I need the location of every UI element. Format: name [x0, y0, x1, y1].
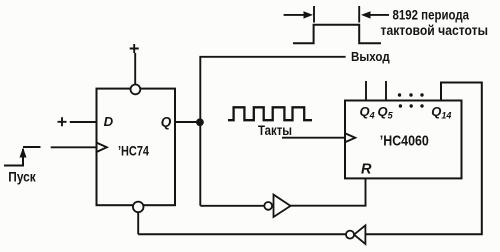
wire: right feedback vertical — [481, 82, 483, 235]
wire: node Q vertical — [199, 57, 201, 206]
measurement pulse waveform — [293, 25, 381, 44]
clock waveform — [228, 107, 312, 120]
wire: Q14 pin up and right — [441, 83, 482, 101]
svg-text:Q5: Q5 — [378, 104, 394, 121]
inverter A triangle — [274, 195, 291, 217]
U1 preset bubble (top) — [131, 85, 141, 95]
+ symbol (D input) — [58, 117, 67, 126]
svg-text:D: D — [104, 114, 114, 129]
wire: inverter A output to R pin — [291, 178, 366, 205]
svg-text:Пуск: Пуск — [8, 169, 36, 184]
svg-text:’HC74: ’HC74 — [118, 144, 149, 159]
svg-text:Выход: Выход — [351, 49, 390, 64]
svg-text:тактовой частоты: тактовой частоты — [381, 22, 489, 38]
wire: node Q to inverter A — [200, 205, 264, 207]
right arrow — [361, 11, 389, 18]
counter U2 'HC4060 body — [345, 101, 462, 179]
junction dot (node Q) — [196, 118, 204, 126]
inverter A input bubble — [264, 202, 272, 210]
wire: clear bubble to bottom line — [137, 212, 139, 234]
svg-text:Такты: Такты — [258, 123, 292, 138]
wire: Q output to node — [175, 121, 200, 123]
flip-flop U1 'HC74 body — [97, 89, 176, 206]
inverter B triangle (points left) — [354, 225, 365, 244]
U2 clock input chevron — [345, 133, 355, 142]
svg-text:Q: Q — [161, 115, 172, 130]
start edge arrowhead — [20, 148, 27, 158]
ellipsis dots (labels row) — [399, 104, 424, 107]
ellipsis dots (pins row) — [398, 93, 424, 96]
svg-text:Q4: Q4 — [360, 104, 375, 121]
wire: start to U1 clock — [51, 146, 97, 148]
inverter B output bubble — [346, 231, 354, 239]
svg-text:’HC4060: ’HC4060 — [380, 133, 429, 150]
wire: clock line into U2 — [282, 137, 345, 139]
left tick — [313, 6, 315, 23]
wire: bottom feedback left segment — [138, 233, 346, 235]
svg-text:Q14: Q14 — [431, 104, 451, 121]
+V symbol (top) — [130, 44, 139, 53]
wire: + to D input — [70, 121, 97, 123]
left arrow — [284, 11, 313, 18]
right tick — [358, 6, 360, 23]
U1 clear bubble (bottom) — [133, 202, 144, 213]
start edge symbol — [4, 147, 41, 166]
wire: +V to preset bubble — [134, 53, 136, 84]
U1 clock input chevron — [97, 143, 107, 152]
wire: output line — [199, 56, 345, 58]
svg-text:8192 периода: 8192 периода — [393, 6, 470, 22]
svg-text:R: R — [361, 162, 372, 178]
Q5 pin stub — [385, 81, 387, 101]
Q4 pin stub — [365, 81, 367, 101]
wire: bottom feedback right segment — [365, 233, 482, 235]
